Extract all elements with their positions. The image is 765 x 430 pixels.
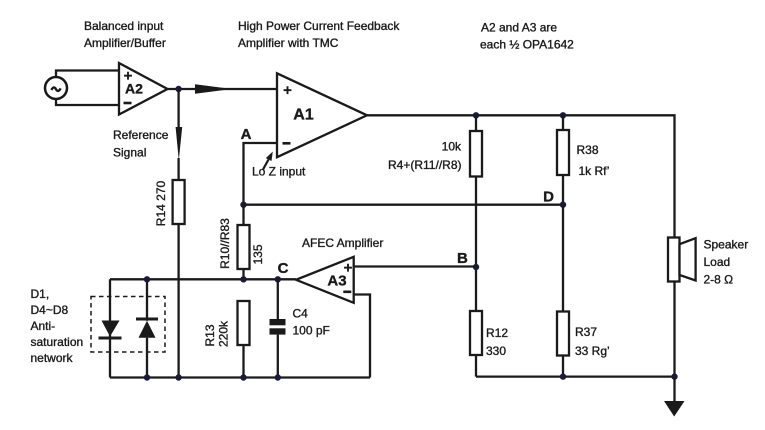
wire R12 bottom to right rail xyxy=(475,355,477,377)
resistor R37 xyxy=(557,312,610,359)
svg-text:B: B xyxy=(457,250,468,267)
svg-text:High Power Current Feedback: High Power Current Feedback xyxy=(238,19,400,33)
node B xyxy=(457,250,479,270)
wire node D to R37 top xyxy=(562,205,564,312)
node D xyxy=(543,189,566,208)
wire node C down to C4 xyxy=(277,279,279,319)
svg-text:Lo Z input: Lo Z input xyxy=(252,165,306,179)
wire A3 +in to node B xyxy=(354,265,476,267)
wire arrow to R14 xyxy=(177,158,179,179)
svg-text:A: A xyxy=(241,126,252,143)
svg-text:Balanced input: Balanced input xyxy=(84,19,164,33)
wire R13 bottom to bottom rail xyxy=(242,345,244,378)
wire A2 output node down xyxy=(177,89,179,128)
resistor R10//R83 xyxy=(218,218,265,269)
resistor 10k R4+(R11//R8) xyxy=(388,131,482,177)
svg-text:+: + xyxy=(283,82,292,99)
wire R38 top lead xyxy=(562,115,564,130)
wire A1 output to top-right corner down to speaker xyxy=(367,115,675,237)
svg-text:R37: R37 xyxy=(575,325,597,339)
junction diode D4 top xyxy=(144,276,150,282)
diode D4~D8 xyxy=(136,279,158,377)
junction R38 top xyxy=(560,112,566,118)
anti-saturation network boundary (dashed) xyxy=(91,297,165,353)
wire left bottom rail xyxy=(110,376,370,378)
wire mid rail to A3 output xyxy=(110,278,296,280)
svg-text:D4~D8: D4~D8 xyxy=(31,303,69,317)
op-amp A3 xyxy=(296,257,354,303)
wire R14 bottom to bottom rail xyxy=(177,224,179,378)
signal flow arrow right xyxy=(195,84,232,94)
svg-text:33 Rg’: 33 Rg’ xyxy=(575,344,610,358)
op-amp A1 xyxy=(277,73,367,157)
op-amp A2 xyxy=(119,63,168,115)
source V1 xyxy=(45,77,67,99)
svg-text:100 pF: 100 pF xyxy=(293,324,330,338)
svg-text:A2: A2 xyxy=(125,81,143,97)
svg-text:C: C xyxy=(278,260,289,277)
svg-text:330: 330 xyxy=(486,344,506,358)
svg-text:A3: A3 xyxy=(327,273,346,290)
junction C4 bottom rail xyxy=(275,374,281,380)
junction A2 output node xyxy=(175,86,181,92)
svg-text:R13: R13 xyxy=(203,324,217,346)
svg-text:A1: A1 xyxy=(293,107,314,124)
svg-text:R12: R12 xyxy=(486,326,508,340)
svg-text:R38: R38 xyxy=(577,143,599,157)
resistor R13 xyxy=(203,301,250,347)
svg-text:network: network xyxy=(31,351,74,365)
wire R38 bottom to node D xyxy=(562,175,564,205)
wire D rail from A column to D node xyxy=(244,204,564,206)
svg-text:A2 and A3 are: A2 and A3 are xyxy=(481,21,557,35)
wire A3 -in feedback to left bottom rail xyxy=(354,295,370,378)
ground xyxy=(664,377,685,417)
wire 10k bottom through D-rail crossing to node B xyxy=(475,177,477,312)
svg-text:220k: 220k xyxy=(217,320,231,347)
wire source to A2 -in xyxy=(56,99,119,106)
svg-text:135: 135 xyxy=(251,244,265,264)
svg-text:Reference: Reference xyxy=(113,128,169,142)
label: Balanced input Amplifier/Buffer xyxy=(84,19,166,50)
svg-text:1k Rf’: 1k Rf’ xyxy=(579,164,610,178)
junction R10//R83 bottom xyxy=(240,276,246,282)
junction diode D4 bottom xyxy=(144,374,150,380)
junction node at A column xyxy=(240,202,246,208)
wire R10//R83 bottom to mid rail xyxy=(242,269,244,279)
svg-text:D1,: D1, xyxy=(31,287,50,301)
label: D1, D4~D8 Anti-saturation network xyxy=(31,287,84,365)
junction speaker/ground xyxy=(671,373,677,379)
svg-text:R14 270: R14 270 xyxy=(154,180,168,226)
wire left vertical of anti-saturation loop xyxy=(109,279,111,377)
junction 10k top xyxy=(473,112,479,118)
label: Reference Signal xyxy=(113,128,169,160)
svg-text:Signal: Signal xyxy=(113,146,146,160)
wire R10//R83 lead from node xyxy=(242,205,244,225)
svg-text:AFEC Amplifier: AFEC Amplifier xyxy=(302,236,383,250)
wire 10k top lead xyxy=(475,115,477,131)
label: A2 and A3 are each 1/2 OPA1642 xyxy=(480,21,574,52)
wire C4 bottom to bottom rail xyxy=(277,335,279,378)
junction R13 bottom rail xyxy=(240,374,246,380)
wire right bottom rail xyxy=(476,375,675,377)
svg-text:saturation: saturation xyxy=(31,335,84,349)
diode D1 xyxy=(99,321,122,340)
speaker LS1 xyxy=(668,238,696,282)
node C xyxy=(275,260,289,282)
capacitor C4 xyxy=(270,307,330,338)
svg-text:R4+(R11//R8): R4+(R11//R8) xyxy=(388,158,461,172)
wire speaker bottom to rail xyxy=(673,282,675,377)
resistor R38 xyxy=(557,130,609,178)
svg-text:Amplifier/Buffer: Amplifier/Buffer xyxy=(84,36,166,50)
svg-text:Anti-: Anti- xyxy=(31,319,56,333)
resistor R12 xyxy=(470,311,508,358)
svg-text:R10//R83: R10//R83 xyxy=(218,218,232,269)
wire source to A2 +in xyxy=(56,71,119,78)
wire A2 output to A1 +in xyxy=(168,88,278,90)
junction R14 bottom rail xyxy=(175,374,181,380)
svg-text:Speaker: Speaker xyxy=(704,238,749,252)
annotation arrow Lo Z input xyxy=(263,152,273,170)
reference signal arrow down xyxy=(176,127,183,161)
svg-text:2-8 Ω: 2-8 Ω xyxy=(704,273,734,287)
svg-text:D: D xyxy=(543,189,554,206)
resistor R14 xyxy=(154,180,185,226)
svg-text:Amplifier with TMC: Amplifier with TMC xyxy=(238,36,339,50)
svg-text:C4: C4 xyxy=(293,307,309,321)
svg-text:each ½ OPA1642: each ½ OPA1642 xyxy=(480,38,574,52)
label: High Power Current Feedback Amplifier with TMC xyxy=(238,19,400,50)
junction R37 bottom xyxy=(560,373,566,379)
svg-text:10k: 10k xyxy=(442,140,462,154)
label: Speaker Load 2-8 ohm xyxy=(704,238,749,287)
svg-text:Load: Load xyxy=(704,255,731,269)
wire A1 -in to node A corner xyxy=(244,143,278,205)
wire R37 bottom to right rail xyxy=(562,356,564,377)
